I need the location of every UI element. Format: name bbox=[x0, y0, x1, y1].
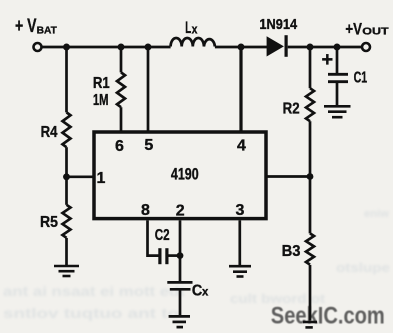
ground below R5 bbox=[54, 266, 79, 276]
svg-text:1M: 1M bbox=[93, 92, 109, 109]
svg-text:R4: R4 bbox=[41, 124, 58, 141]
svg-text:C2: C2 bbox=[155, 227, 170, 244]
wire R1 bottom to IC pin 6 bbox=[120, 107, 123, 132]
label Cx bbox=[192, 283, 209, 300]
label +VBAT bbox=[15, 16, 57, 37]
resistor B3 bbox=[306, 233, 314, 264]
svg-text:eniw: eniw bbox=[364, 208, 389, 220]
svg-text:1N914: 1N914 bbox=[259, 17, 297, 33]
wire IC pin 8 down and right to C2 bbox=[148, 220, 159, 255]
svg-text:ant ai nsaat ei mott edt: ant ai nsaat ei mott edt bbox=[3, 284, 186, 299]
wire rail from inductor to diode anode bbox=[215, 46, 267, 49]
wire R5 bottom to ground bbox=[65, 238, 68, 266]
pin 5 label bbox=[144, 137, 153, 154]
resistor R2 bbox=[306, 88, 314, 121]
wire node down to B3 bbox=[309, 177, 312, 234]
resistor R1 bbox=[117, 72, 125, 107]
wire rail from +VBAT terminal to inductor bbox=[41, 46, 170, 49]
capacitor C2 bbox=[160, 248, 167, 264]
label B3 bbox=[282, 243, 301, 260]
wire rail junction down to IC pin 5 bbox=[147, 47, 150, 132]
svg-text:C1: C1 bbox=[354, 69, 368, 86]
terminal +VBAT bbox=[34, 43, 42, 51]
wire C1 bottom to ground bbox=[336, 82, 339, 106]
wire rail from diode cathode to +VOUT terminal bbox=[288, 46, 362, 49]
wire R2 bottom to node bbox=[309, 121, 312, 176]
wire IC pin 2 down to Cx bbox=[179, 220, 182, 281]
label C1 bbox=[354, 69, 368, 86]
junction node rail/pin5 bbox=[145, 44, 152, 51]
pin 3 label bbox=[236, 202, 245, 219]
junction node rail/pin4 bbox=[238, 44, 245, 51]
wire pin 1 bbox=[67, 175, 95, 178]
terminal +VOUT bbox=[362, 43, 370, 51]
pin 2 label bbox=[176, 203, 185, 220]
pin 6 label bbox=[115, 138, 124, 155]
wire rail junction down to C1 bbox=[336, 47, 339, 73]
svg-text:Cx: Cx bbox=[192, 283, 209, 300]
wire Cx bottom to ground bbox=[179, 289, 182, 315]
svg-text:R5: R5 bbox=[40, 214, 58, 231]
pin 8 label bbox=[141, 202, 150, 219]
label R5 bbox=[40, 214, 58, 231]
wire rail junction down to R1 bbox=[120, 47, 123, 72]
ground below B3 (partially cropped) bbox=[303, 322, 317, 327]
label 4190 bbox=[171, 166, 199, 184]
capacitor C1 bbox=[328, 74, 348, 81]
svg-text:1: 1 bbox=[97, 170, 106, 187]
ground below Cx bbox=[169, 316, 190, 327]
svg-text:R1: R1 bbox=[93, 75, 110, 92]
wire rail junction down to IC pin 4 bbox=[239, 47, 242, 132]
label Lx bbox=[185, 19, 197, 37]
label + of C1 bbox=[321, 49, 333, 71]
svg-text:8: 8 bbox=[141, 202, 150, 219]
junction node R4/R5/pin1 bbox=[63, 173, 70, 180]
svg-text:Lx: Lx bbox=[185, 19, 197, 37]
svg-text:6: 6 bbox=[115, 138, 124, 155]
label R1 1M bbox=[93, 75, 110, 109]
ground below pin 3 bbox=[229, 266, 251, 276]
inductor Lx bbox=[171, 38, 215, 47]
junction node rail/R1 bbox=[118, 44, 125, 51]
junction node rail/R4 bbox=[63, 44, 70, 51]
svg-text:R2: R2 bbox=[283, 101, 300, 118]
junction node C2/pin2 bbox=[177, 252, 184, 259]
junction node rail/R2 bbox=[307, 44, 314, 51]
svg-text:+: + bbox=[321, 49, 333, 71]
capacitor Cx bbox=[167, 282, 192, 289]
label +VOUT bbox=[345, 20, 389, 38]
label 1N914 bbox=[259, 17, 297, 33]
label C2 bbox=[155, 227, 170, 244]
wire IC pin 3 down to ground bbox=[238, 220, 241, 265]
label R4 bbox=[41, 124, 58, 141]
wire R4 bottom to R5 top bbox=[65, 147, 68, 205]
diode D1 1N914 bbox=[267, 35, 287, 57]
svg-text:4190: 4190 bbox=[171, 166, 199, 184]
svg-text:otslupe: otslupe bbox=[336, 260, 390, 275]
svg-text:sntlov tuqtuo ant to: sntlov tuqtuo ant to bbox=[3, 306, 179, 321]
resistor R5 bbox=[63, 205, 71, 238]
wire IC right side to R2/B3 node bbox=[266, 175, 310, 178]
junction node rail/C1 bbox=[334, 44, 341, 51]
wire C2 right plate to pin2 column bbox=[168, 254, 180, 257]
svg-text:2: 2 bbox=[176, 203, 185, 220]
pin 4 label bbox=[237, 138, 246, 155]
pin 1 label bbox=[97, 170, 106, 187]
IC U1 4190 bbox=[94, 132, 266, 219]
wire B3 bottom to ground bbox=[309, 265, 312, 321]
svg-text:4: 4 bbox=[237, 138, 246, 155]
svg-text:3: 3 bbox=[236, 202, 245, 219]
svg-text:B3: B3 bbox=[282, 243, 301, 260]
svg-text:5: 5 bbox=[144, 137, 153, 154]
ground below C1 bbox=[324, 106, 351, 117]
svg-text:SeekIC.com: SeekIC.com bbox=[271, 302, 385, 329]
junction node R2/B3 bbox=[307, 173, 314, 180]
wire rail junction down to R2 bbox=[309, 47, 312, 88]
label R2 bbox=[283, 101, 300, 118]
resistor R4 bbox=[63, 112, 71, 147]
wire rail junction down to R4 bbox=[65, 47, 68, 112]
